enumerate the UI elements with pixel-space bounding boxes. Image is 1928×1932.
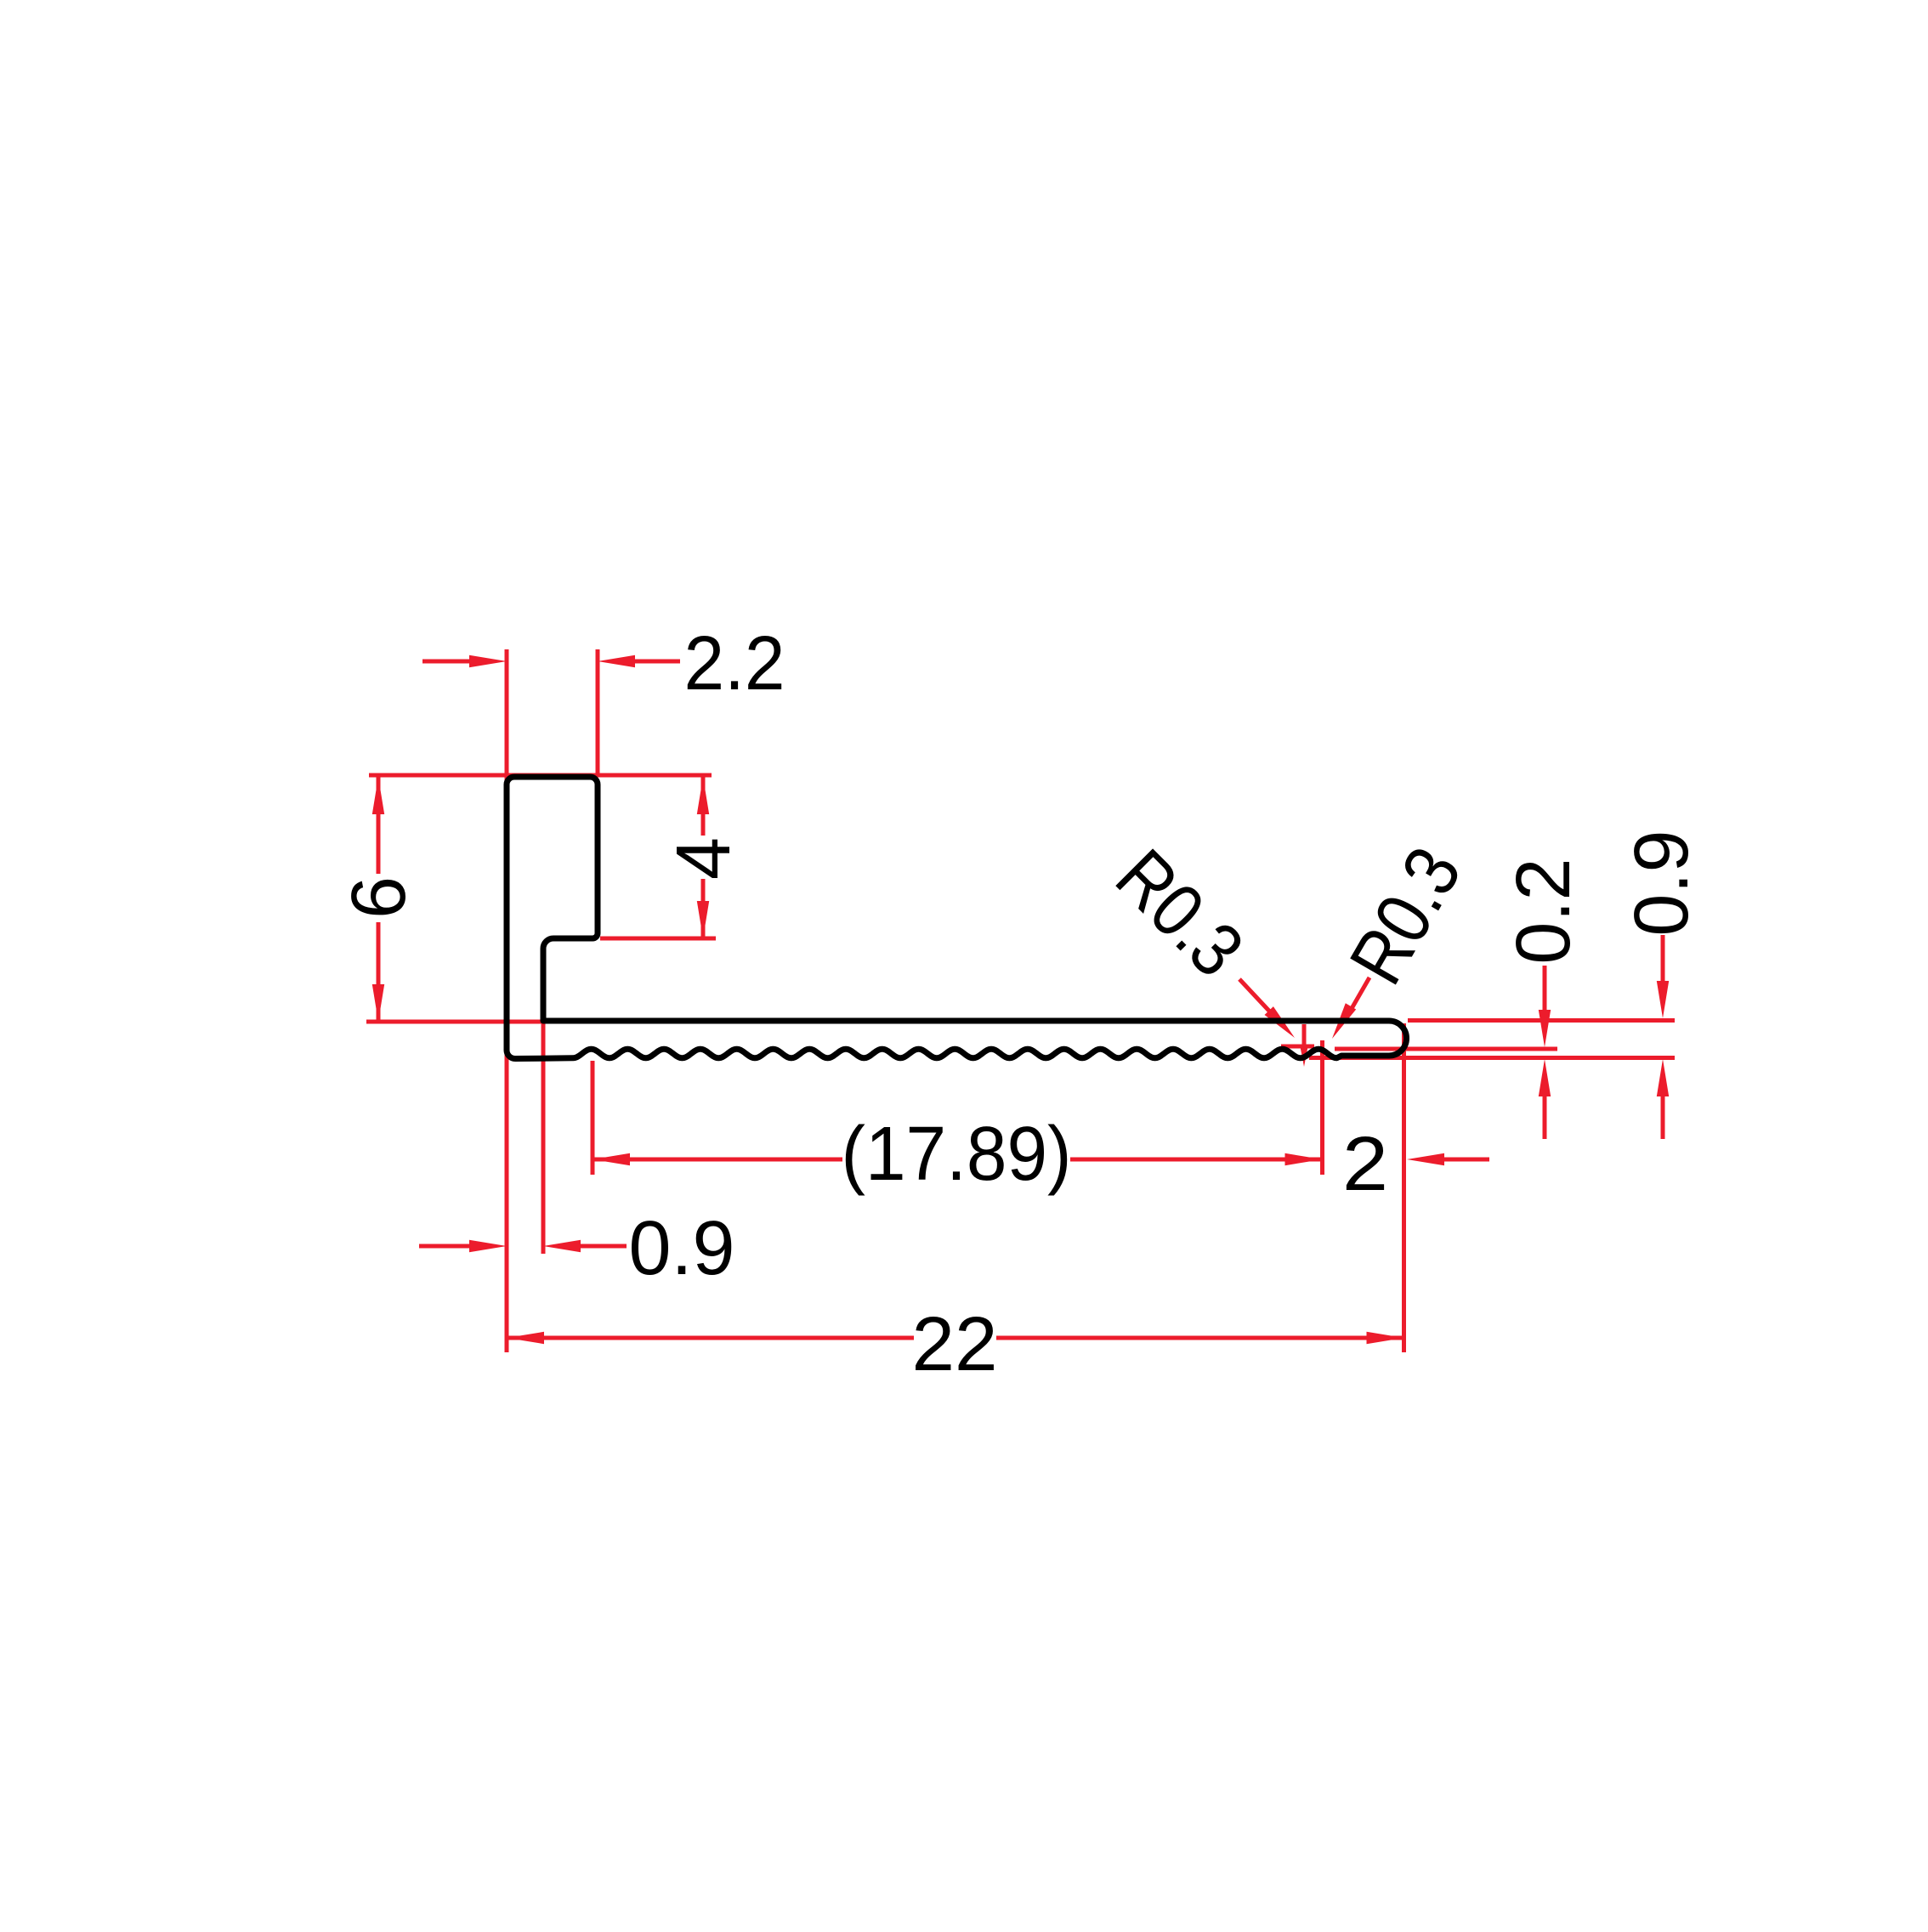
profile outline (aluminium L-section with serrated base) (507, 777, 1407, 1059)
dimension 0.9 (bottom left) (419, 1244, 469, 1249)
extension line: x=695 serration start (for 17.89) (591, 1061, 595, 1175)
svg-text:6: 6 (337, 876, 422, 919)
svg-text:4: 4 (661, 837, 746, 880)
extension line: profile left x=596 (505, 649, 509, 1352)
svg-text:0.9: 0.9 (1619, 830, 1704, 936)
dimension 0.9 (right, vertical) (1661, 935, 1665, 991)
svg-text:0.2: 0.2 (1501, 858, 1586, 964)
dimension 6 (left, vertical) (377, 777, 381, 874)
leader R0.3 (left) (1239, 979, 1277, 1019)
dimension 2.2 (top) (422, 660, 473, 664)
extension line: y=1104 step (for 4) (600, 937, 716, 941)
extension line: bar right x=703 (for 2.2) (596, 649, 600, 777)
svg-text:(17.89): (17.89) (842, 1112, 1072, 1197)
small vertical tick at serration end x=1534 with down arrow (1302, 1024, 1307, 1057)
dimension (17.89) (593, 1153, 630, 1165)
extension line: y=1200.5 right (for 0.9 right) (1408, 1018, 1675, 1023)
svg-text:2: 2 (1342, 1122, 1388, 1207)
dimension 22 (overall width) (507, 1332, 544, 1344)
extension line: y=1202 flange top left (for 6) (366, 1020, 546, 1024)
leader R0.3 (right) (1350, 977, 1369, 1011)
extension line: y=912 top of profile (369, 773, 712, 778)
extension line: x=1555.5 serration end (for 17.89 / 2) (1320, 1040, 1324, 1175)
extension line: x=1651.5 profile right (for 2 / 22) (1402, 1023, 1406, 1352)
svg-text:0.9: 0.9 (629, 1206, 735, 1291)
extension line: y=1234 serration crest (for 0.2) (1335, 1047, 1557, 1051)
short stub y=1231 at serration end (1281, 1045, 1314, 1049)
dimension 0.2 (right, vertical) (1543, 966, 1547, 1020)
svg-text:22: 22 (912, 1302, 998, 1387)
extension line: x=639 (for 0.9 bottom) (542, 1022, 546, 1254)
svg-text:2.2: 2.2 (684, 621, 785, 706)
extension line: y=1244.5 right bottom (for 0.2/0.9) (1309, 1056, 1675, 1060)
dimension 4 (vertical, right of bar) (701, 777, 706, 836)
